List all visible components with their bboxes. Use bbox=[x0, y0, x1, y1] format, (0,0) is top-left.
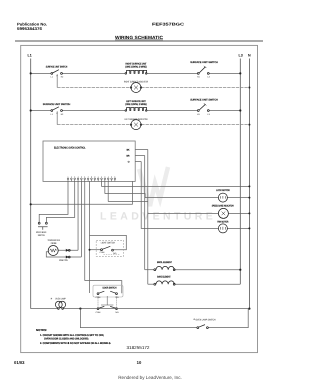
svg-text:P: P bbox=[56, 74, 58, 77]
svg-text:7: 7 bbox=[88, 175, 89, 178]
svg-text:(ONE 1500W, 2 WIRE): (ONE 1500W, 2 WIRE) bbox=[125, 65, 147, 68]
svg-text:OVEN LAMP SWITCH: OVEN LAMP SWITCH bbox=[196, 318, 216, 321]
svg-text:OVEN DOOR CLOSED AND UNLOCKED.: OVEN DOOR CLOSED AND UNLOCKED. bbox=[44, 338, 89, 341]
svg-text:P: P bbox=[56, 112, 58, 115]
svg-text:PRB CON: PRB CON bbox=[59, 259, 68, 262]
svg-text:FAN MOTOR: FAN MOTOR bbox=[217, 221, 228, 224]
svg-text:L3: L3 bbox=[207, 113, 210, 116]
svg-text:01/03: 01/03 bbox=[14, 360, 25, 365]
svg-text:5995384376: 5995384376 bbox=[17, 26, 43, 31]
svg-text:RIGHT SURFACE INDICATOR: RIGHT SURFACE INDICATOR bbox=[124, 80, 148, 83]
svg-text:LIGHT SWITCH: LIGHT SWITCH bbox=[101, 241, 115, 244]
svg-text:4: 4 bbox=[78, 175, 79, 178]
svg-text:2: 2 bbox=[101, 175, 102, 178]
svg-text:H2: H2 bbox=[61, 75, 64, 78]
svg-text:H2: H2 bbox=[61, 113, 64, 116]
svg-text:COM: COM bbox=[96, 311, 101, 314]
svg-text:1: 1 bbox=[98, 175, 99, 178]
svg-text:BK: BK bbox=[127, 149, 130, 152]
svg-text:Rendered by LeadVenture, Inc.: Rendered by LeadVenture, Inc. bbox=[118, 375, 182, 380]
svg-text:LEFT SURFACE INDICATOR: LEFT SURFACE INDICATOR bbox=[125, 118, 148, 121]
svg-text:LEADVENTURE: LEADVENTURE bbox=[100, 211, 216, 223]
svg-text:5: 5 bbox=[111, 175, 112, 178]
svg-text:10: 10 bbox=[137, 360, 142, 365]
svg-text:1. CIRCUIT SHOWN WITH ALL CON: 1. CIRCUIT SHOWN WITH ALL CONTROLS SET T… bbox=[40, 334, 104, 337]
svg-text:(ONE 1200W, 2 WIRE): (ONE 1200W, 2 WIRE) bbox=[125, 103, 147, 106]
svg-text:1: 1 bbox=[68, 175, 69, 178]
svg-text:WIRING SCHEMATIC: WIRING SCHEMATIC bbox=[115, 35, 164, 40]
svg-text:318255172: 318255172 bbox=[127, 345, 151, 350]
svg-text:L3: L3 bbox=[207, 75, 210, 78]
svg-text:BROIL ELEMENT: BROIL ELEMENT bbox=[157, 261, 172, 264]
svg-text:6: 6 bbox=[114, 175, 115, 178]
svg-text:NO: NO bbox=[116, 296, 119, 299]
svg-text:SURFACE UNIT SWITCH: SURFACE UNIT SWITCH bbox=[46, 65, 68, 68]
svg-text:SWITCH: SWITCH bbox=[38, 234, 45, 237]
svg-text:4: 4 bbox=[108, 175, 109, 178]
svg-text:✳: ✳ bbox=[50, 297, 53, 300]
svg-text:N: N bbox=[248, 53, 251, 57]
svg-text:BAKE ELEMENT: BAKE ELEMENT bbox=[157, 276, 171, 279]
svg-text:L1: L1 bbox=[51, 113, 54, 116]
svg-text:3: 3 bbox=[74, 175, 75, 178]
svg-text:L3: L3 bbox=[239, 53, 243, 57]
svg-text:LOCK MOTOR: LOCK MOTOR bbox=[216, 189, 230, 192]
svg-text:FEF357BGC: FEF357BGC bbox=[152, 21, 184, 26]
svg-text:NO: NO bbox=[113, 252, 116, 255]
svg-text:COM: COM bbox=[100, 251, 105, 254]
svg-text:ELECTRONIC OVEN CONTROL: ELECTRONIC OVEN CONTROL bbox=[54, 146, 86, 149]
svg-text:L1: L1 bbox=[28, 53, 32, 57]
svg-text:PROBE: PROBE bbox=[51, 242, 57, 245]
svg-text:BR: BR bbox=[126, 155, 129, 158]
svg-text:NO: NO bbox=[116, 311, 119, 314]
svg-text:SURFACE UNIT SWITCH: SURFACE UNIT SWITCH bbox=[190, 98, 218, 101]
svg-text:3: 3 bbox=[104, 175, 105, 178]
svg-text:SURFACE UNIT SWITCH: SURFACE UNIT SWITCH bbox=[43, 103, 71, 106]
svg-text:2. COMPONENTS WITH ✳ DO NOT A: 2. COMPONENTS WITH ✳ DO NOT APPEAR ON AL… bbox=[40, 342, 111, 345]
svg-text:DOOR SWITCH: DOOR SWITCH bbox=[103, 287, 117, 290]
svg-text:O: O bbox=[128, 161, 130, 164]
svg-text:SPEED BAKE INDICATOR: SPEED BAKE INDICATOR bbox=[212, 204, 234, 207]
svg-text:8: 8 bbox=[91, 175, 92, 178]
svg-text:OVEN LAMP: OVEN LAMP bbox=[55, 297, 66, 300]
svg-text:2: 2 bbox=[71, 175, 72, 178]
svg-text:L1: L1 bbox=[51, 75, 54, 78]
svg-text:NOTES:: NOTES: bbox=[36, 328, 47, 332]
svg-text:6: 6 bbox=[84, 175, 85, 178]
svg-text:H1: H1 bbox=[197, 75, 200, 78]
svg-text:SURFACE UNIT SWITCH: SURFACE UNIT SWITCH bbox=[190, 61, 218, 64]
svg-text:5: 5 bbox=[81, 175, 82, 178]
svg-text:H1: H1 bbox=[197, 113, 200, 116]
svg-text:9: 9 bbox=[94, 175, 95, 178]
